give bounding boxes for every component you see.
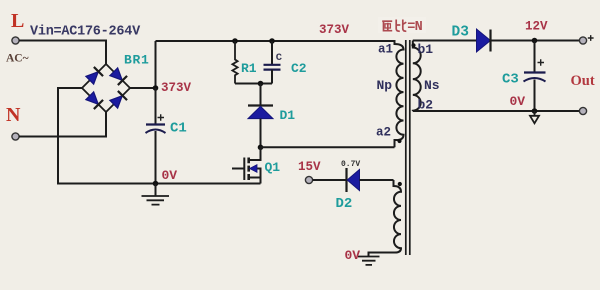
node 0V junction <box>153 181 159 187</box>
svg-text:Q1: Q1 <box>265 160 281 175</box>
svg-text:R1: R1 <box>241 61 257 76</box>
svg-text:Np: Np <box>377 78 393 93</box>
capacitor C1 <box>146 123 165 125</box>
terminal out minus <box>579 107 586 114</box>
node primary phase dot <box>397 139 401 143</box>
svg-text:Ns: Ns <box>424 78 440 93</box>
svg-text:373V: 373V <box>319 23 350 37</box>
svg-text:0V: 0V <box>162 168 178 183</box>
svg-text:b1: b1 <box>418 42 434 57</box>
wire C3 to 0V rail <box>534 80 536 112</box>
svg-text:N: N <box>6 104 21 126</box>
terminal plus sign <box>588 35 594 41</box>
node drain junction <box>258 145 264 151</box>
wire D1 to drain node <box>260 119 262 148</box>
wire N to bridge bottom <box>19 112 106 137</box>
svg-text:373V: 373V <box>161 81 192 95</box>
wire RC bottom connector <box>235 83 272 85</box>
terminal N <box>12 133 19 140</box>
bridge diode lower-left <box>85 91 103 109</box>
svg-text:Out: Out <box>571 73 595 89</box>
svg-text:=N: =N <box>407 20 422 35</box>
ground aux <box>358 257 380 265</box>
svg-text:D2: D2 <box>336 196 353 212</box>
terminal 15V <box>305 176 312 183</box>
bridge diode lower-right <box>109 91 127 109</box>
svg-text:C3: C3 <box>502 72 519 88</box>
capacitor C3 plus sign <box>538 59 545 65</box>
wire top 373V rail <box>156 40 395 42</box>
label turns ratio CJK za <box>382 21 392 31</box>
node 373V junction <box>153 85 159 91</box>
svg-text:C: C <box>276 52 283 64</box>
svg-text:D1: D1 <box>280 108 296 123</box>
svg-text:0V: 0V <box>345 248 361 263</box>
ground signal triangle <box>534 111 536 116</box>
wire junction to D1 <box>260 84 262 106</box>
label turns ratio CJK bi <box>396 20 406 32</box>
wire 15V to D2 <box>313 179 347 181</box>
diode D1 <box>248 104 273 106</box>
transistor Q1 MOSFET <box>232 147 261 183</box>
svg-text:L: L <box>11 10 24 32</box>
wire C2 bottom <box>271 70 273 84</box>
svg-text:AC~: AC~ <box>6 53 29 65</box>
svg-text:15V: 15V <box>298 160 321 174</box>
wire L to bridge top <box>19 41 106 65</box>
node secondary phase dot <box>411 43 415 47</box>
bridge diode upper-left <box>85 67 103 85</box>
svg-text:0V: 0V <box>510 94 526 109</box>
capacitor C1 plus sign <box>158 114 165 120</box>
bridge rectifier BR1 diamond <box>82 64 130 112</box>
terminal L <box>12 37 19 44</box>
wire C2 top <box>271 41 273 65</box>
diode D2 <box>345 168 347 192</box>
wire drain node to transformer a2 <box>261 146 395 148</box>
transformer secondary winding Ns <box>413 41 421 112</box>
Q1 body arrow <box>250 165 258 173</box>
svg-text:C2: C2 <box>291 61 307 76</box>
svg-text:Vin=AC176-264V: Vin=AC176-264V <box>30 25 141 40</box>
svg-text:C1: C1 <box>170 121 187 137</box>
wire 12V node to C3 <box>534 41 536 73</box>
ground main <box>155 184 157 197</box>
svg-text:D3: D3 <box>452 25 469 41</box>
node RC-D1 junction <box>258 81 264 87</box>
wire b1 to D3 <box>413 40 478 42</box>
diode D3 <box>477 29 491 52</box>
node R1 top junction <box>232 38 238 44</box>
label turns ratio background <box>378 17 426 33</box>
node secondary 0V junction <box>532 108 538 114</box>
node aux phase dot <box>398 182 402 186</box>
wire bridge minus output to 0V rail <box>58 88 261 184</box>
wire secondary 0V rail <box>413 110 580 112</box>
svg-text:a2: a2 <box>376 126 391 140</box>
resistor R1 <box>232 41 237 84</box>
transformer core <box>406 40 410 255</box>
transformer aux winding <box>369 180 402 257</box>
svg-text:a1: a1 <box>378 43 393 57</box>
svg-text:0.7V: 0.7V <box>341 160 360 169</box>
transformer primary winding Np <box>395 40 404 147</box>
svg-text:12V: 12V <box>525 20 548 34</box>
wire 373V node down to C1 <box>155 88 157 125</box>
svg-text:BR1: BR1 <box>124 53 150 68</box>
capacitor C2 <box>264 65 281 70</box>
wire bridge plus output to 373V node <box>130 87 156 89</box>
wire C1 to 0V rail <box>155 131 157 184</box>
wire D2 to aux winding <box>360 179 394 181</box>
node 12V junction <box>532 38 538 44</box>
bridge diode upper-right <box>109 67 127 85</box>
terminal out plus <box>579 37 586 44</box>
wire D3 to output <box>491 40 580 42</box>
wire 373V node riser to top rail <box>155 41 157 88</box>
capacitor C3 <box>524 71 546 73</box>
node C2 top junction <box>269 38 275 44</box>
